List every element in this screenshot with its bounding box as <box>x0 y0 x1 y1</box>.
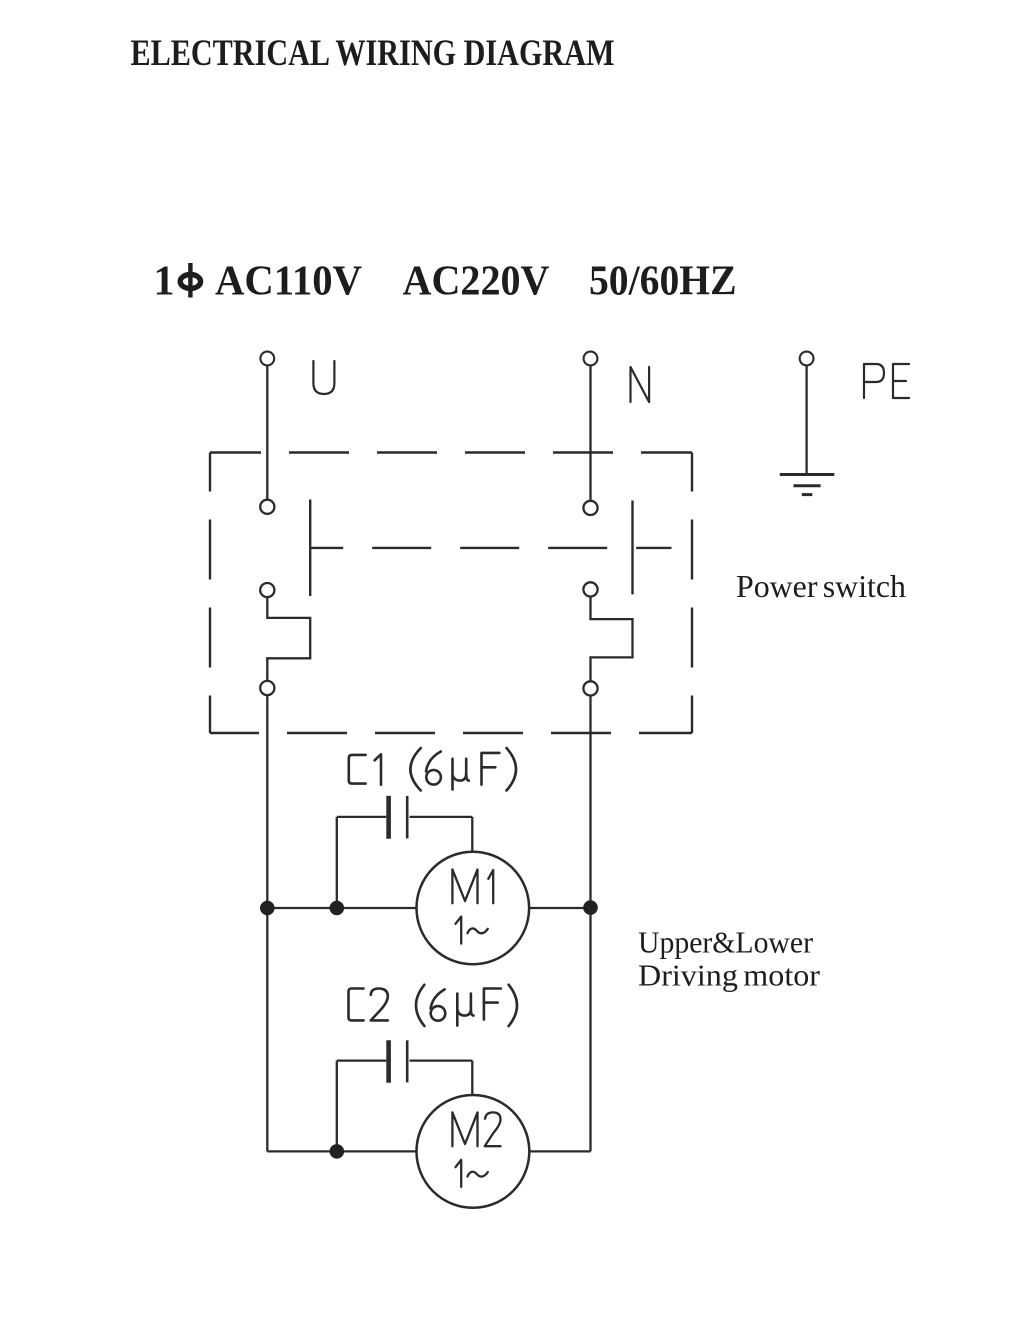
svg-text:AC220V: AC220V <box>403 259 550 305</box>
svg-text:Power switch: Power switch <box>736 568 906 604</box>
svg-text:Upper&Lower: Upper&Lower <box>638 925 814 960</box>
svg-text:Driving motor: Driving motor <box>638 958 821 993</box>
svg-text:50/60HZ: 50/60HZ <box>589 259 737 305</box>
svg-text:ELECTRICAL WIRING DIAGRAM: ELECTRICAL WIRING DIAGRAM <box>131 32 615 73</box>
svg-text:1: 1 <box>154 259 175 305</box>
svg-text:AC110V: AC110V <box>215 259 362 305</box>
